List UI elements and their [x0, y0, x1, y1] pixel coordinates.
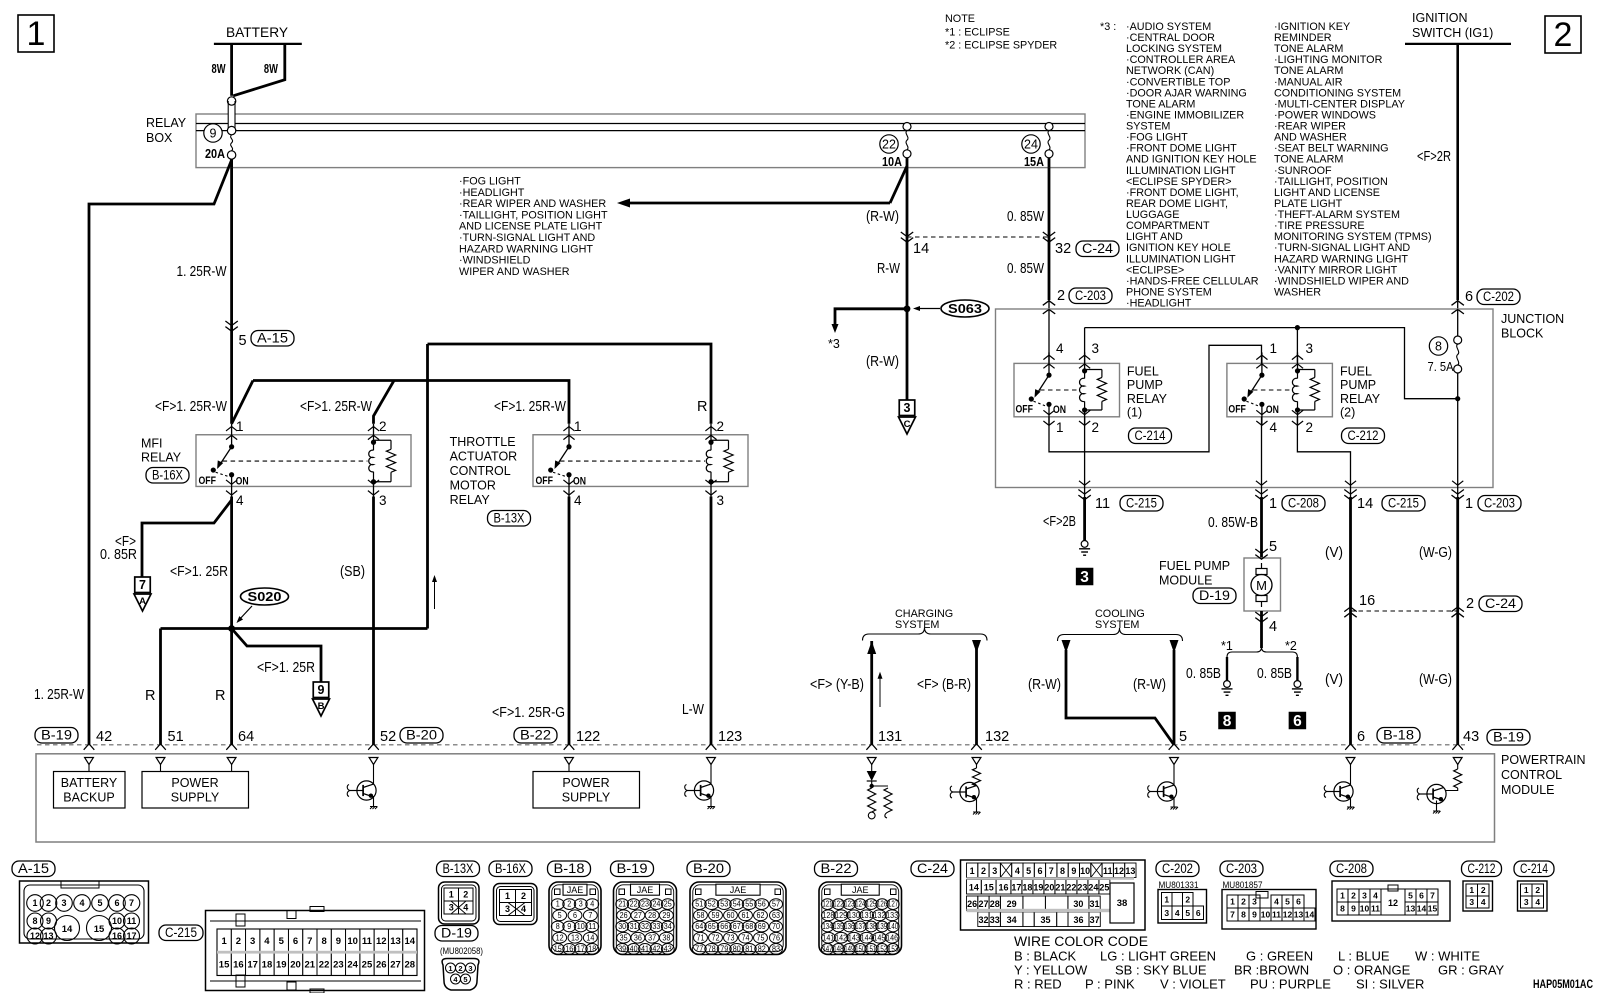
- svg-text:31: 31: [1090, 899, 1100, 909]
- svg-text:2: 2: [1092, 420, 1100, 435]
- svg-text:58: 58: [697, 911, 705, 920]
- svg-text:7: 7: [1230, 910, 1235, 920]
- wire branch to PCM 42: [89, 160, 232, 745]
- svg-text:13: 13: [390, 936, 401, 947]
- svg-text:122: 122: [576, 729, 600, 745]
- svg-text:25: 25: [664, 900, 673, 909]
- svg-text:26: 26: [376, 960, 387, 971]
- svg-text:20: 20: [290, 960, 301, 971]
- svg-text:65: 65: [708, 922, 717, 931]
- connector D-19 pinout: [442, 959, 479, 991]
- svg-text:7. 5A: 7. 5A: [1428, 360, 1455, 374]
- svg-text:C-214: C-214: [1520, 861, 1548, 876]
- svg-text:122: 122: [833, 900, 843, 909]
- svg-text:29: 29: [662, 911, 670, 920]
- svg-text:8: 8: [1223, 713, 1232, 730]
- transistor pin 123: [710, 765, 712, 785]
- svg-text:64: 64: [238, 729, 254, 745]
- svg-text:4: 4: [236, 493, 244, 508]
- svg-text:(R-W): (R-W): [1133, 677, 1166, 693]
- svg-text:5: 5: [1026, 866, 1031, 876]
- svg-text:148: 148: [833, 945, 843, 954]
- svg-text:15: 15: [554, 945, 563, 954]
- svg-text:20: 20: [1044, 883, 1054, 893]
- connector C-212 pinout: [1463, 881, 1493, 911]
- fuel pump grounds *1 *2: [1260, 611, 1263, 648]
- svg-text:22: 22: [630, 900, 638, 909]
- svg-text:C-203: C-203: [1075, 288, 1106, 303]
- svg-text:0. 85B: 0. 85B: [1186, 666, 1221, 682]
- svg-text:17: 17: [577, 945, 585, 954]
- wire R-W fuse22 down: [906, 168, 909, 400]
- svg-text:23: 23: [641, 900, 649, 909]
- svg-text:<F>2B: <F>2B: [1043, 514, 1076, 530]
- direction arrow: [434, 577, 436, 609]
- svg-text:BACKUP: BACKUP: [63, 791, 114, 805]
- svg-text:43: 43: [1463, 729, 1479, 745]
- svg-text:C-212: C-212: [1348, 428, 1379, 443]
- svg-text:OFF: OFF: [199, 475, 217, 487]
- svg-text:B-18: B-18: [554, 861, 585, 876]
- connector B-18 label: [548, 861, 591, 877]
- svg-text:52: 52: [708, 900, 716, 909]
- relay box bus bars: [196, 123, 1085, 125]
- svg-text:BLOCK: BLOCK: [1501, 327, 1544, 341]
- svg-text:27: 27: [390, 960, 401, 971]
- svg-text:81: 81: [745, 945, 753, 954]
- connector C-212 label: [1462, 861, 1502, 877]
- svg-text:8: 8: [321, 936, 326, 947]
- svg-text:11: 11: [362, 936, 373, 947]
- svg-text:124: 124: [855, 900, 866, 909]
- transistor pin 6: [1350, 765, 1352, 786]
- diode network pin 131: [871, 765, 873, 772]
- svg-text:5: 5: [1179, 729, 1187, 745]
- svg-text:C-215: C-215: [1388, 495, 1419, 510]
- svg-text:19: 19: [1033, 883, 1043, 893]
- svg-text:43: 43: [664, 945, 672, 954]
- svg-text:4: 4: [1270, 420, 1278, 435]
- svg-text:1: 1: [1269, 496, 1277, 512]
- svg-text:4: 4: [1274, 897, 1279, 907]
- svg-text:147: 147: [822, 945, 832, 954]
- connector B-19 pinout: [614, 882, 677, 955]
- svg-text:67: 67: [733, 922, 741, 931]
- svg-text:POWER: POWER: [562, 776, 609, 790]
- svg-text:1: 1: [1270, 341, 1278, 356]
- svg-text:MFI: MFI: [141, 437, 163, 451]
- svg-text:5: 5: [1408, 891, 1413, 901]
- svg-text:BR :BROWN: BR :BROWN: [1234, 963, 1309, 978]
- wire SB MFI pin3 to PCM 52: [372, 497, 375, 745]
- connector B-16X pinout: [494, 884, 538, 925]
- svg-text:152: 152: [877, 945, 887, 954]
- svg-text:17: 17: [247, 960, 258, 971]
- svg-text:<F>1. 25R-W: <F>1. 25R-W: [155, 399, 227, 415]
- wire 0.85W fuse24 to junction block: [1048, 168, 1051, 300]
- svg-text:3: 3: [717, 493, 725, 508]
- svg-text:3: 3: [468, 964, 472, 973]
- svg-text:57: 57: [772, 900, 780, 909]
- svg-text:74: 74: [742, 933, 751, 942]
- svg-text:RELAY: RELAY: [141, 450, 182, 464]
- connector B-22 label: [815, 861, 858, 877]
- svg-text:18: 18: [588, 945, 596, 954]
- connector B-19 label: [611, 861, 654, 877]
- wire C-203 into relay1 pin4: [1048, 309, 1050, 363]
- svg-text:PUMP: PUMP: [1340, 378, 1376, 392]
- svg-text:·HEADLIGHT: ·HEADLIGHT: [459, 187, 525, 199]
- svg-text:·FOG LIGHT: ·FOG LIGHT: [459, 176, 521, 188]
- svg-text:C-215: C-215: [165, 925, 197, 940]
- svg-text:3: 3: [1164, 908, 1169, 918]
- page number box 2: [1545, 16, 1581, 53]
- relay1 pin1 to relay2 pin1 link: [1049, 345, 1262, 452]
- wire battery left 8W: [230, 44, 233, 96]
- wire 2R ignition to junction block: [1456, 44, 1459, 300]
- svg-text:W : WHITE: W : WHITE: [1415, 949, 1480, 964]
- svg-text:G : GREEN: G : GREEN: [1246, 949, 1313, 964]
- svg-text:POWERTRAIN: POWERTRAIN: [1501, 753, 1586, 767]
- svg-text:3: 3: [61, 898, 66, 908]
- connector B-13X pinout: [439, 882, 480, 924]
- svg-text:ON: ON: [1053, 404, 1066, 416]
- svg-text:32: 32: [641, 922, 649, 931]
- svg-text:0. 85W: 0. 85W: [1007, 209, 1044, 225]
- *3 branch arrow: [835, 309, 907, 325]
- svg-text:13: 13: [1406, 904, 1416, 914]
- svg-text:22: 22: [1066, 883, 1076, 893]
- svg-text:63: 63: [772, 911, 780, 920]
- battery fusible link holder: [228, 101, 235, 131]
- svg-text:3: 3: [1306, 341, 1314, 356]
- svg-text:53: 53: [720, 900, 728, 909]
- svg-text:ON: ON: [573, 475, 586, 487]
- svg-text:1: 1: [1469, 885, 1474, 895]
- wire 0.85W-B to fuel pump: [1255, 490, 1267, 500]
- svg-text:3: 3: [250, 936, 255, 947]
- svg-text:R : RED: R : RED: [1014, 977, 1062, 992]
- svg-text:(W-G): (W-G): [1419, 545, 1452, 561]
- fuel pump relay 2: [1227, 363, 1333, 416]
- svg-text:2: 2: [1185, 894, 1190, 904]
- svg-text:<F> (B-R): <F> (B-R): [917, 677, 971, 693]
- svg-text:27: 27: [634, 911, 642, 920]
- svg-text:2: 2: [1466, 596, 1474, 612]
- svg-text:CONTROL: CONTROL: [1501, 768, 1562, 782]
- svg-text:9: 9: [1351, 904, 1356, 914]
- svg-text:9: 9: [318, 683, 325, 697]
- svg-text:0. 85B: 0. 85B: [1257, 666, 1292, 682]
- svg-text:24: 24: [1088, 883, 1098, 893]
- svg-text:2: 2: [46, 898, 51, 908]
- svg-text:7: 7: [129, 898, 134, 908]
- svg-text:Y : YELLOW: Y : YELLOW: [1014, 963, 1088, 978]
- svg-text:(V): (V): [1325, 545, 1343, 561]
- svg-text:10: 10: [577, 922, 586, 931]
- svg-text:6: 6: [1419, 891, 1424, 901]
- svg-text:C-212: C-212: [1468, 861, 1496, 876]
- svg-text:OFF: OFF: [536, 475, 554, 487]
- svg-text:5: 5: [1285, 897, 1290, 907]
- svg-text:1: 1: [448, 964, 452, 973]
- svg-text:3: 3: [1362, 891, 1367, 901]
- svg-text:137: 137: [855, 922, 865, 931]
- svg-text:*3 :: *3 :: [1100, 21, 1116, 33]
- svg-text:ON: ON: [236, 475, 249, 487]
- svg-text:MODULE: MODULE: [1501, 783, 1554, 797]
- svg-text:2: 2: [981, 866, 986, 876]
- svg-text:11: 11: [1103, 866, 1113, 876]
- svg-text:37: 37: [648, 933, 656, 942]
- svg-text:ON: ON: [1266, 404, 1279, 416]
- svg-text:2: 2: [1554, 16, 1573, 54]
- svg-text:51: 51: [168, 729, 184, 745]
- svg-text:1: 1: [505, 891, 510, 901]
- svg-text:OFF: OFF: [1228, 403, 1246, 415]
- svg-text:2: 2: [1306, 420, 1314, 435]
- svg-text:4: 4: [590, 900, 595, 909]
- svg-text:4: 4: [264, 936, 270, 947]
- bus 1.25R-W wire: [232, 381, 253, 424]
- svg-text:9: 9: [210, 127, 217, 141]
- connector C-203 label: [1220, 861, 1263, 877]
- connector C-24 label: [911, 861, 954, 877]
- connector B-22 pinout: [819, 882, 902, 955]
- svg-text:POWER: POWER: [171, 776, 218, 790]
- wire V to PCM 6: [1344, 490, 1356, 500]
- svg-text:139: 139: [877, 922, 887, 931]
- svg-text:136: 136: [844, 922, 854, 931]
- svg-text:JAE: JAE: [852, 885, 869, 895]
- svg-text:3: 3: [1469, 897, 1474, 907]
- svg-text:26: 26: [620, 911, 628, 920]
- relay2 pin4 out 1 C-208: [1261, 417, 1263, 488]
- svg-text:3: 3: [1524, 897, 1529, 907]
- svg-text:1: 1: [1524, 885, 1529, 895]
- svg-text:B-13X: B-13X: [494, 510, 525, 525]
- svg-text:8: 8: [556, 922, 560, 931]
- svg-text:0. 85R: 0. 85R: [100, 547, 137, 563]
- svg-text:16: 16: [998, 883, 1008, 893]
- fuel pump relay 1: [1014, 363, 1120, 416]
- svg-text:12: 12: [376, 936, 387, 947]
- transistor + resistor pin 43: [1457, 765, 1459, 770]
- svg-text:<F>1. 25R: <F>1. 25R: [257, 660, 315, 676]
- svg-text:FUEL PUMP: FUEL PUMP: [1159, 559, 1230, 573]
- svg-text:B-16X: B-16X: [152, 467, 183, 482]
- svg-text:130: 130: [848, 911, 860, 920]
- svg-text:SYSTEM: SYSTEM: [1095, 619, 1139, 631]
- wire F B-R charging: [972, 640, 981, 653]
- svg-text:33: 33: [990, 915, 1000, 925]
- svg-text:14: 14: [969, 883, 979, 893]
- svg-text:35: 35: [620, 933, 629, 942]
- svg-text:9: 9: [46, 916, 51, 926]
- svg-text:C-202: C-202: [1483, 289, 1514, 304]
- svg-text:26: 26: [967, 899, 977, 909]
- svg-text:142: 142: [835, 933, 847, 942]
- connector C-215 label: [159, 925, 203, 941]
- svg-text:·WINDSHIELD: ·WINDSHIELD: [459, 255, 531, 267]
- svg-text:OFF: OFF: [1016, 403, 1034, 415]
- svg-text:131: 131: [861, 911, 873, 920]
- svg-text:59: 59: [712, 911, 720, 920]
- svg-text:8W: 8W: [264, 61, 279, 76]
- svg-text:69: 69: [758, 922, 766, 931]
- svg-text:37: 37: [1090, 915, 1100, 925]
- svg-text:9: 9: [567, 922, 571, 931]
- svg-text:36: 36: [634, 933, 642, 942]
- svg-text:SB : SKY BLUE: SB : SKY BLUE: [1115, 963, 1207, 978]
- svg-text:RELAY: RELAY: [1127, 392, 1168, 406]
- connector C-215 pinout: [206, 911, 425, 991]
- svg-text:·TAILLIGHT, POSITION LIGHT: ·TAILLIGHT, POSITION LIGHT: [459, 209, 608, 221]
- svg-text:<F>1. 25R-G: <F>1. 25R-G: [492, 705, 565, 721]
- powertrain control module box: [36, 754, 1495, 842]
- svg-text:56: 56: [758, 900, 766, 909]
- svg-text:O : ORANGE: O : ORANGE: [1333, 963, 1411, 978]
- fuse 9 20A: [204, 124, 222, 142]
- svg-text:30: 30: [618, 922, 627, 931]
- svg-text:28: 28: [990, 899, 1000, 909]
- svg-text:15: 15: [94, 924, 105, 935]
- relay1 pin2 out 11 C-215: [1084, 417, 1086, 488]
- svg-text:4: 4: [1175, 908, 1180, 918]
- svg-text:2: 2: [1351, 891, 1356, 901]
- svg-text:14: 14: [913, 241, 929, 257]
- svg-text:HAP05M01AC: HAP05M01AC: [1533, 979, 1593, 991]
- svg-text:D-19: D-19: [1199, 588, 1230, 603]
- relay2 pin2 out 14 C-215: [1297, 417, 1350, 488]
- connector B-18 pinout: [549, 882, 601, 955]
- svg-text:4: 4: [463, 903, 468, 913]
- svg-text:75: 75: [757, 933, 766, 942]
- svg-text:25: 25: [1099, 883, 1109, 893]
- svg-text:138: 138: [866, 922, 876, 931]
- svg-text:17: 17: [126, 931, 136, 941]
- svg-text:146: 146: [886, 933, 898, 942]
- svg-text:(1): (1): [1127, 406, 1142, 420]
- svg-text:12: 12: [1283, 910, 1293, 920]
- svg-text:A: A: [139, 596, 146, 607]
- svg-text:5: 5: [558, 911, 563, 920]
- svg-text:38: 38: [662, 933, 670, 942]
- svg-text:RELAY: RELAY: [1340, 392, 1381, 406]
- svg-text:72: 72: [712, 933, 720, 942]
- svg-text:BOX: BOX: [146, 131, 173, 145]
- svg-text:14: 14: [1417, 904, 1427, 914]
- svg-text:V : VIOLET: V : VIOLET: [1160, 977, 1226, 992]
- svg-text:0. 85W: 0. 85W: [1007, 261, 1044, 277]
- svg-text:C-24: C-24: [917, 861, 949, 876]
- svg-text:143: 143: [848, 933, 860, 942]
- svg-text:1: 1: [1230, 897, 1235, 907]
- svg-text:32: 32: [978, 915, 988, 925]
- svg-text:15: 15: [1428, 904, 1438, 914]
- svg-text:1: 1: [970, 866, 975, 876]
- svg-text:150: 150: [855, 945, 866, 954]
- svg-text:13: 13: [571, 933, 579, 942]
- svg-text:10: 10: [112, 916, 122, 926]
- svg-text:151: 151: [866, 945, 876, 954]
- svg-text:3: 3: [449, 903, 454, 913]
- svg-text:GR : GRAY: GR : GRAY: [1438, 963, 1505, 978]
- svg-text:34: 34: [1007, 915, 1017, 925]
- svg-text:18: 18: [262, 960, 273, 971]
- svg-text:5: 5: [1185, 908, 1190, 918]
- svg-text:2: 2: [236, 936, 241, 947]
- svg-text:83: 83: [772, 945, 780, 954]
- svg-text:<F>2R: <F>2R: [1417, 149, 1451, 165]
- svg-text:6: 6: [1293, 713, 1302, 730]
- svg-text:C-24: C-24: [1485, 596, 1517, 611]
- wires R-W cooling to PCM 5: [1062, 640, 1071, 653]
- svg-text:132: 132: [873, 911, 885, 920]
- svg-text:16: 16: [112, 931, 122, 941]
- svg-text:12: 12: [30, 931, 40, 941]
- svg-text:R: R: [215, 688, 225, 704]
- svg-text:144: 144: [861, 933, 873, 942]
- svg-text:14: 14: [586, 933, 595, 942]
- svg-text:(W-G): (W-G): [1419, 672, 1452, 688]
- svg-text:7: 7: [139, 578, 146, 592]
- connector C-214 label: [1514, 861, 1554, 877]
- svg-text:127: 127: [888, 900, 898, 909]
- wire F Y-B charging: [867, 641, 876, 654]
- svg-text:R: R: [697, 399, 707, 415]
- svg-text:3: 3: [1092, 341, 1100, 356]
- svg-text:IGNITION: IGNITION: [1412, 11, 1468, 25]
- svg-text:2: 2: [717, 419, 725, 434]
- svg-text:4: 4: [1481, 897, 1486, 907]
- arrow to light loads: [890, 166, 907, 203]
- svg-text:*2: *2: [1285, 639, 1297, 653]
- svg-text:*1 : ECLIPSE: *1 : ECLIPSE: [945, 27, 1010, 39]
- svg-text:76: 76: [772, 933, 780, 942]
- svg-text:13: 13: [1294, 910, 1304, 920]
- svg-text:B-22: B-22: [520, 727, 551, 742]
- junction exit chevrons: [1079, 481, 1090, 485]
- svg-text:THROTTLE: THROTTLE: [450, 435, 516, 449]
- svg-text:19: 19: [276, 960, 287, 971]
- svg-text:2: 2: [1535, 885, 1540, 895]
- svg-text:·HEADLIGHT: ·HEADLIGHT: [1126, 298, 1192, 310]
- svg-text:11: 11: [588, 922, 596, 931]
- svg-text:42: 42: [652, 945, 660, 954]
- svg-text:FUEL: FUEL: [1127, 365, 1159, 379]
- svg-text:3: 3: [505, 904, 510, 914]
- svg-text:SI : SILVER: SI : SILVER: [1356, 977, 1424, 992]
- svg-text:2: 2: [1481, 885, 1486, 895]
- fuse 24 15A: [1022, 135, 1040, 153]
- svg-text:C-215: C-215: [1126, 495, 1157, 510]
- svg-text:B : BLACK: B : BLACK: [1014, 949, 1076, 964]
- svg-text:1: 1: [1056, 420, 1064, 435]
- svg-text:11: 11: [1371, 904, 1380, 914]
- svg-text:8: 8: [1435, 340, 1442, 354]
- svg-text:0. 85W-B: 0. 85W-B: [1208, 515, 1258, 531]
- power supply 2: [568, 765, 570, 772]
- svg-text:(V): (V): [1325, 672, 1343, 688]
- svg-text:11: 11: [1095, 496, 1110, 512]
- svg-text:B-19: B-19: [617, 861, 648, 876]
- connector C-208 label: [1330, 861, 1373, 877]
- svg-text:28: 28: [405, 960, 416, 971]
- connector B-20 pinout: [690, 882, 786, 955]
- svg-text:WIRE COLOR CODE: WIRE COLOR CODE: [1014, 934, 1148, 949]
- svg-text:AND LICENSE PLATE LIGHT: AND LICENSE PLATE LIGHT: [459, 221, 603, 233]
